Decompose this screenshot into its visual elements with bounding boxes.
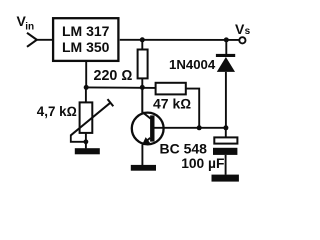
capacitor C1 bottom plate [213, 148, 237, 155]
wire regulator adj pin down [85, 61, 87, 88]
svg-text:4,7 kΩ: 4,7 kΩ [37, 104, 77, 119]
label Vin [17, 13, 35, 32]
wire diode top [225, 40, 227, 54]
node junction pot bottom wiper [84, 139, 89, 144]
svg-text:LM 350: LM 350 [62, 39, 110, 55]
svg-text:1N4004: 1N4004 [169, 57, 216, 72]
wire capacitor to ground [225, 155, 227, 175]
diode D1 cathode bar [216, 54, 235, 57]
wire top rail to 220 ohm resistor [141, 40, 143, 50]
ground pot [75, 148, 100, 154]
terminal Vs circle [239, 37, 245, 43]
svg-text:in: in [25, 22, 34, 33]
regulator U1 box [53, 18, 118, 61]
node junction diode cap [223, 125, 228, 130]
label Vs [235, 21, 251, 37]
transistor Q1 collector wire [142, 87, 150, 118]
wire input to regulator [37, 39, 53, 41]
wire 47k right end down to base rail [186, 89, 199, 128]
transistor Q1 base bar [150, 115, 154, 141]
transistor Q1 circle [132, 113, 164, 145]
wire adj junction down to potentiometer [85, 87, 87, 102]
diode D1 triangle [217, 57, 235, 72]
svg-text:BC 548: BC 548 [160, 140, 208, 156]
node junction adj pin [84, 85, 89, 90]
svg-text:100 µF: 100 µF [181, 156, 224, 171]
svg-text:47 kΩ: 47 kΩ [153, 96, 191, 112]
transistor Q1 emitter line [143, 138, 150, 144]
node junction 220 bottom [140, 85, 145, 90]
wire base rail to capacitor [225, 128, 227, 138]
wire 220 ohm bottom to adj rail [141, 78, 143, 87]
resistor 220 ohm body [138, 50, 148, 79]
node junction diode top [224, 37, 229, 42]
svg-text:LM 317: LM 317 [62, 23, 110, 39]
transistor Q1 emitter arrowhead [142, 137, 151, 145]
input terminal chevron [27, 33, 37, 47]
wire wiper to bottom terminal [71, 135, 86, 142]
resistor 47k body [156, 83, 186, 95]
ground emitter [131, 165, 156, 171]
svg-text:V: V [235, 21, 245, 37]
wire potentiometer bottom to ground [85, 133, 87, 149]
potentiometer wiper T bar [108, 99, 114, 106]
wire diode bottom to base rail [225, 72, 227, 128]
node junction 47k base [197, 125, 202, 130]
wire base rail horizontal [154, 127, 226, 129]
svg-text:220 Ω: 220 Ω [94, 68, 133, 84]
wire emitter to ground [141, 145, 143, 166]
capacitor C1 top plate [214, 137, 237, 143]
node junction top of 220 ohm [140, 37, 145, 42]
svg-text:s: s [245, 26, 251, 37]
ground capacitor [212, 175, 239, 182]
potentiometer wiper arrow diagonal [71, 103, 111, 136]
potentiometer P1 body 4.7k [80, 102, 93, 132]
wire adj rail horizontal [86, 86, 155, 89]
wire top rail output to Vs [120, 39, 239, 41]
